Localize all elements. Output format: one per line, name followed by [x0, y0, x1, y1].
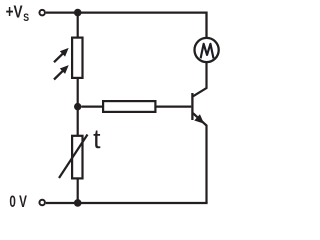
node junction top: [74, 9, 82, 17]
svg-text:t: t: [93, 124, 101, 154]
node junction bottom: [74, 199, 82, 207]
node junction middle: [74, 103, 81, 110]
resistor base R: [103, 101, 155, 112]
svg-text:0 V: 0 V: [9, 193, 27, 211]
terminal 0 V: [39, 200, 45, 206]
LDR light arrow 2: [54, 66, 68, 80]
wire LDR to middle junction: [77, 78, 79, 136]
terminal +Vs: [39, 10, 45, 16]
wire thermistor to bottom rail: [77, 178, 79, 203]
wire middle junction to resistor: [81, 105, 103, 107]
label +Vs: [6, 2, 29, 24]
svg-text:+V: +V: [6, 2, 23, 22]
wire top rail: [46, 13, 207, 38]
wire from top rail to LDR: [77, 13, 79, 38]
motor M1 circle: [195, 38, 219, 62]
wire bottom rail: [46, 202, 208, 204]
motor M1 letter M: [201, 44, 214, 59]
wire resistor to transistor base: [155, 105, 191, 107]
LDR light arrow 1: [54, 49, 68, 63]
transistor Q1 emitter: [193, 113, 207, 203]
thermistor diagonal stroke: [59, 135, 88, 179]
transistor Q1 emitter arrow: [195, 115, 203, 123]
transistor Q1 base bar: [191, 93, 193, 120]
resistor LDR (light dependent resistor): [72, 38, 82, 78]
thermistor body: [72, 136, 82, 179]
transistor Q1 collector: [193, 62, 207, 96]
svg-text:S: S: [23, 12, 29, 24]
